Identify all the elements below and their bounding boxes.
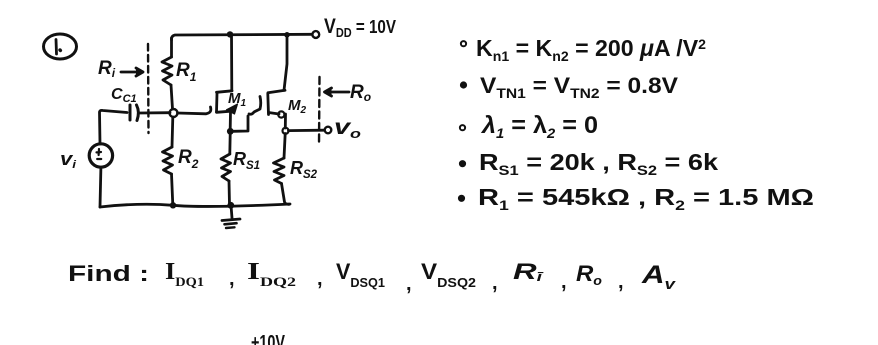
label RS2 [290, 158, 318, 181]
label M1 [228, 90, 247, 109]
svg-text:RS1 = 20k , RS2 = 6k: RS1 = 20k , RS2 = 6k [479, 149, 718, 178]
label RS1 [233, 149, 260, 172]
transistor M2 [268, 36, 287, 128]
Ro arrow [325, 88, 350, 96]
svg-text:VDSQ2: VDSQ2 [421, 259, 476, 290]
svg-text:RS1: RS1 [233, 149, 260, 172]
svg-text:vi: vi [60, 149, 77, 171]
svg-text:,: , [317, 268, 323, 290]
bullet 1: Kn1 = Kn2 = 200 uA/V2 [461, 41, 466, 46]
svg-text:VTN1 = VTN2 = 0.8V: VTN1 = VTN2 = 0.8V [480, 73, 678, 101]
svg-text:CC1: CC1 [111, 86, 137, 105]
label vo [334, 116, 361, 141]
svg-text:,: , [492, 272, 498, 294]
source vi circle [89, 144, 112, 167]
source vi plus [97, 149, 102, 155]
node: bottom rail dot at R2 [170, 202, 176, 208]
wire: gate node to M1 gate [178, 112, 207, 116]
find line [68, 259, 677, 295]
svg-text:IDQ2: IDQ2 [247, 259, 296, 289]
svg-text:R1 = 545kΩ , R2 = 1.5 MΩ: R1 = 545kΩ , R2 = 1.5 MΩ [478, 184, 814, 213]
label M2 [288, 97, 307, 116]
clipped +10V at bottom [251, 332, 285, 345]
svg-text:λ1 = λ2 = 0: λ1 = λ2 = 0 [480, 112, 598, 141]
capacitor CC1 plates [130, 105, 138, 121]
node: top rail dot at M1 drain [227, 31, 233, 37]
top rail wire [171, 34, 312, 40]
svg-text:M2: M2 [288, 97, 307, 116]
transistor M1 [217, 35, 238, 129]
node: M1 source junction dot [227, 128, 234, 135]
svg-text:+10V: +10V [251, 332, 285, 345]
resistor R2 [163, 117, 173, 205]
label R2 [178, 147, 199, 171]
svg-text:VDD = 10V: VDD = 10V [324, 15, 396, 40]
svg-text:Ro: Ro [350, 82, 371, 104]
label R1 [176, 60, 197, 84]
node: top rail dot at M2 drain [284, 32, 290, 38]
label Ri [98, 58, 116, 80]
resistor RS1 [221, 134, 231, 205]
bullet 2: VTN1 = VTN2 = 0.8V [461, 82, 466, 87]
svg-text:R2: R2 [178, 147, 199, 171]
svg-text:IDQ1: IDQ1 [165, 259, 204, 289]
M1 gate hook [207, 107, 211, 114]
svg-text:R1: R1 [176, 60, 197, 84]
svg-text:Kn1 = Kn2 = 200 μA /V2: Kn1 = Kn2 = 200 μA /V2 [476, 35, 706, 64]
svg-text:vo: vo [334, 116, 361, 141]
bullet 5: R1 = 545kOhm, R2 = 1.5 MOhm [459, 196, 464, 201]
dashed output reference line [318, 77, 321, 145]
Vdd terminal [312, 31, 319, 38]
resistor RS2 [274, 134, 290, 205]
label vi [60, 149, 77, 171]
resistor R1 [162, 38, 173, 109]
svg-text:,: , [229, 268, 235, 290]
svg-text:Av: Av [641, 261, 677, 293]
node: gate node open circle [170, 109, 178, 117]
Ri arrow [121, 68, 143, 76]
wire: source top to capacitor [100, 110, 128, 144]
wire: M2 source junction to output terminal [289, 129, 325, 132]
svg-text:,: , [618, 271, 624, 293]
label VDD = 10V [324, 15, 396, 40]
wire: source bottom to ground rail [99, 168, 103, 208]
svg-text:M1: M1 [228, 90, 247, 109]
ground [222, 205, 240, 228]
wire: M1 source to M2 gate [233, 97, 261, 132]
label CC1 [111, 86, 137, 105]
dashed input reference line [147, 44, 150, 133]
wire: capacitor to gate node [140, 111, 170, 114]
svg-text:Rī: Rī [513, 259, 544, 284]
label Ro [350, 82, 371, 104]
output terminal vo [325, 127, 332, 134]
problem number 1 circled [44, 34, 77, 59]
node: bottom rail dot at RS1 [227, 202, 234, 209]
svg-text:VDSQ1: VDSQ1 [336, 259, 385, 290]
svg-text:,: , [406, 273, 412, 295]
svg-text:RS2: RS2 [290, 158, 318, 181]
svg-text:Find :: Find : [68, 261, 149, 286]
bullet 4: RS1 = 20k, RS2 = 6k [460, 161, 465, 166]
node: M2 source junction open circle [283, 128, 289, 134]
bottom rail wire [100, 204, 290, 207]
svg-text:Ro: Ro [576, 261, 602, 288]
bullet 3: lambda1 = lambda2 = 0 [460, 125, 465, 130]
source vi minus [97, 158, 101, 160]
svg-text:Ri: Ri [98, 58, 116, 80]
svg-text:,: , [561, 271, 567, 293]
